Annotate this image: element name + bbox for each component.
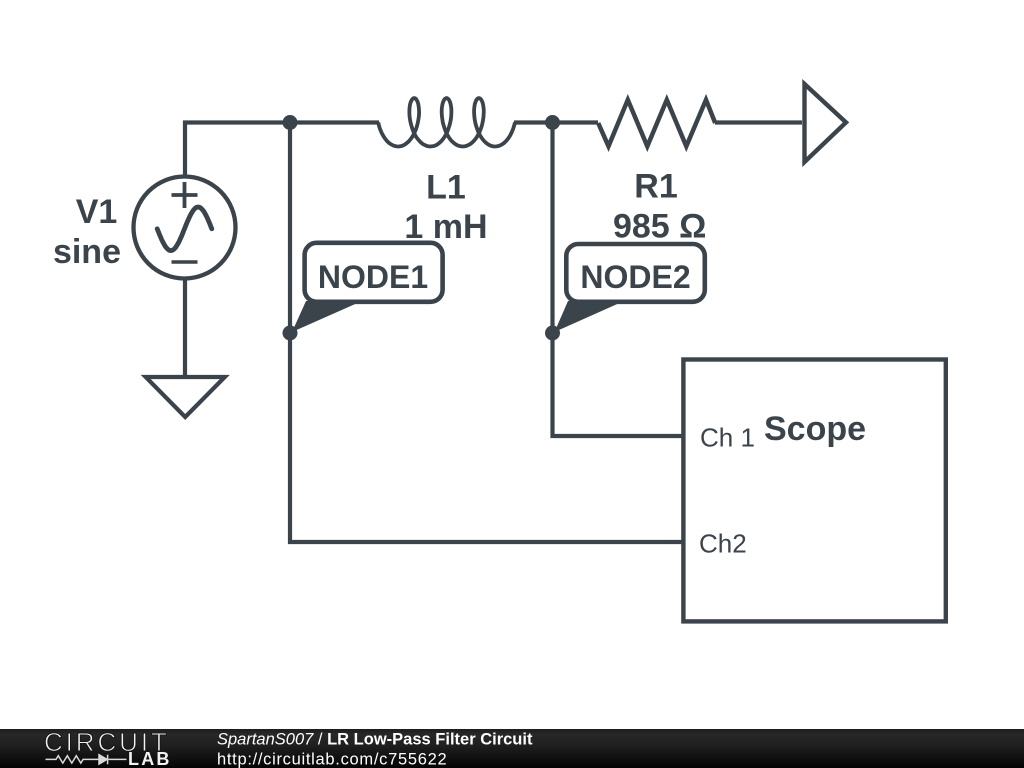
- svg-text:sine: sine: [53, 233, 121, 271]
- svg-text:1 mH: 1 mH: [404, 208, 487, 246]
- svg-text:V1: V1: [76, 193, 118, 231]
- svg-text:Scope: Scope: [764, 410, 866, 448]
- svg-text:985 Ω: 985 Ω: [613, 208, 706, 246]
- svg-text:SpartanS007 / LR Low-Pass Filt: SpartanS007 / LR Low-Pass Filter Circuit: [217, 731, 533, 749]
- inductor L1 coil: [378, 98, 515, 146]
- footer bar: [0, 729, 1024, 768]
- svg-text:Ch 1: Ch 1: [700, 423, 755, 453]
- resistor R1 zigzag: [598, 100, 715, 147]
- wire NODE2 net vertical and to scope Ch1: [553, 123, 684, 437]
- junction dot NODE1: [283, 326, 298, 341]
- wire top from V1 to inductor: [185, 123, 379, 176]
- output terminal arrow: [805, 84, 847, 162]
- svg-text:http://circuitlab.com/c755622: http://circuitlab.com/c755622: [217, 751, 447, 768]
- junction dot at top left node: [283, 115, 298, 130]
- svg-text:NODE2: NODE2: [580, 259, 690, 295]
- scope box: [683, 360, 945, 622]
- voltage source V1: [134, 177, 236, 279]
- ground: [146, 377, 225, 417]
- svg-text:R1: R1: [634, 168, 677, 206]
- NODE2 callout tail: [555, 301, 625, 332]
- wire V1 bottom to ground: [183, 280, 187, 377]
- wire resistor to output arrow: [715, 120, 802, 124]
- svg-text:LAB: LAB: [128, 749, 172, 768]
- wire NODE1 net vertical and to scope Ch2: [290, 123, 683, 543]
- logo resistor-diode squiggle: [46, 755, 127, 765]
- NODE2 callout box: [566, 244, 705, 302]
- svg-text:NODE1: NODE1: [318, 259, 428, 295]
- NODE1 callout tail: [292, 301, 362, 332]
- svg-text:Ch2: Ch2: [699, 529, 747, 559]
- NODE1 callout box: [305, 243, 443, 302]
- junction dot NODE2: [545, 326, 560, 341]
- wire inductor to resistor: [514, 120, 598, 124]
- svg-text:L1: L1: [426, 169, 466, 207]
- junction dot at top middle node: [545, 115, 560, 130]
